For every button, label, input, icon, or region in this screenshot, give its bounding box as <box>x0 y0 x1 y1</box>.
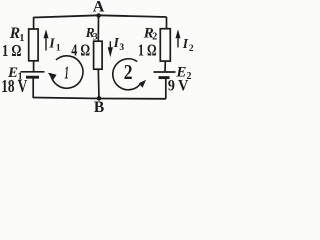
loop 2 arrowhead <box>139 80 146 88</box>
wire R1 to E1 <box>33 61 35 72</box>
svg-text:2: 2 <box>124 60 133 84</box>
resistor R1 <box>29 29 38 61</box>
wire left side top segment <box>33 17 35 30</box>
loop 2 mesh arrow arc <box>113 59 142 90</box>
svg-text:1: 1 <box>56 44 61 54</box>
svg-text:1 Ω: 1 Ω <box>2 41 22 60</box>
svg-text:I: I <box>182 36 189 51</box>
svg-text:9 V: 9 V <box>168 78 189 95</box>
battery E1 short plate <box>26 76 39 79</box>
wire E1 to bottom <box>32 77 34 98</box>
wire R3 to B <box>97 69 100 98</box>
svg-text:3: 3 <box>119 43 124 53</box>
svg-text:I: I <box>48 35 55 50</box>
svg-text:B: B <box>94 99 104 113</box>
resistor R2 <box>160 29 170 61</box>
svg-text:2: 2 <box>189 44 193 54</box>
battery E2 long plate <box>154 71 176 73</box>
wire E2 to bottom <box>165 78 167 99</box>
svg-text:R: R <box>9 25 20 42</box>
wire right side top segment <box>166 17 168 29</box>
wire R2 to E2 <box>164 61 166 72</box>
battery E1 long plate <box>21 71 45 73</box>
resistor R3 <box>94 41 103 69</box>
loop 1 arrowhead <box>48 73 57 81</box>
wire middle top (A to R3) <box>97 15 99 41</box>
node B junction dot <box>97 96 102 101</box>
svg-text:3: 3 <box>93 32 98 42</box>
current arrow I2 <box>177 37 179 48</box>
svg-text:1 Ω: 1 Ω <box>138 41 157 60</box>
svg-text:18 V: 18 V <box>1 76 27 96</box>
current arrow I1 <box>45 37 47 51</box>
current arrow I3 <box>109 41 111 49</box>
node A junction dot <box>96 13 101 18</box>
svg-text:1: 1 <box>64 63 69 83</box>
loop 1 mesh arrow arc <box>51 56 83 88</box>
battery E2 short plate <box>159 76 170 79</box>
wire bottom (left corner to node B to right corner) <box>33 98 166 99</box>
wire top (left corner to node A to right corner) <box>34 15 167 17</box>
